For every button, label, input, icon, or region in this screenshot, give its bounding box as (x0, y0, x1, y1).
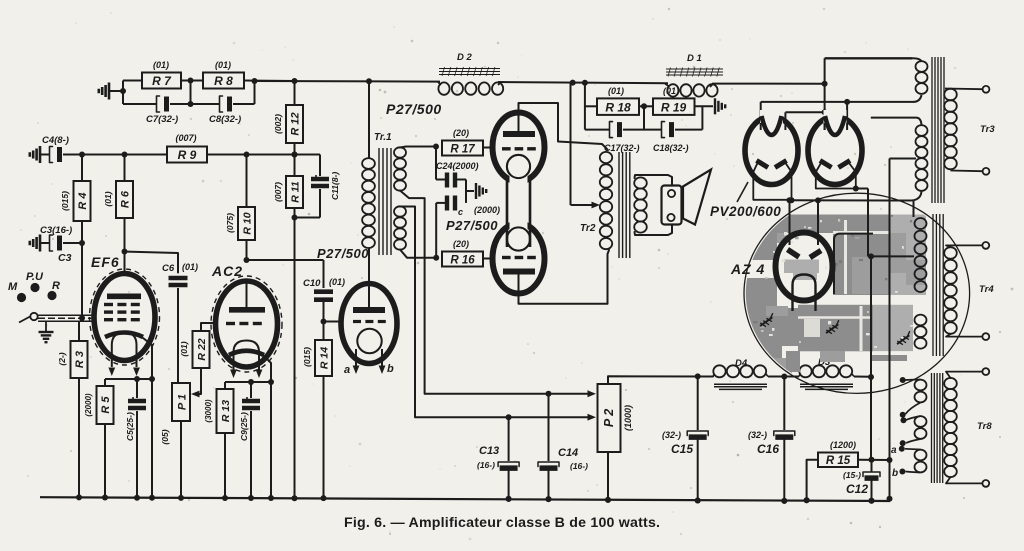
speaker horn (683, 170, 711, 225)
tube EF6 envelope (94, 274, 155, 361)
resistor R13 (217, 389, 234, 433)
Tr8 left winding section 2 (915, 416, 927, 427)
capacitor C18 (662, 122, 665, 138)
wire C9 top (250, 382, 252, 398)
resistor R9 (167, 147, 207, 163)
svg-text:EF6: EF6 (91, 254, 120, 270)
grey overlay band above AZ4 (770, 215, 889, 234)
wire Tr8 secondary bottom (946, 477, 982, 483)
Tr8 core (931, 373, 933, 483)
envelope neck (506, 177, 508, 248)
wire C18 to R19 right (675, 129, 702, 131)
grey overlay lower right block (873, 305, 913, 351)
wire P1 bottom (180, 421, 182, 498)
wire Tr2 secondary bottom to speaker (635, 225, 673, 236)
wire HV vertical (over grey) (870, 256, 872, 377)
Tr2 core (618, 152, 620, 258)
svg-text:R 6: R 6 (120, 190, 132, 208)
capacitor C6 (169, 276, 188, 281)
wire C24 to ground node (457, 179, 466, 181)
wire top supply bus (255, 80, 441, 83)
resistor R8 (203, 73, 244, 89)
svg-text:(1200): (1200) (830, 440, 856, 450)
speaker frame (662, 186, 682, 225)
svg-text:C13: C13 (479, 445, 499, 457)
AZ4 filament arch (793, 275, 816, 312)
wire R13 top (224, 382, 226, 389)
wire C16 bottom (783, 438, 785, 501)
wire R6 to EF6 anode (124, 218, 126, 275)
wire Tr1 sec upper bottom to P2 (400, 191, 425, 394)
wire C11 bottom (319, 189, 321, 218)
HV heater rail (792, 199, 912, 201)
wire (712, 83, 825, 85)
wire R10 top (246, 155, 248, 208)
Tr4 secondary winding (944, 247, 957, 259)
svg-text:a: a (344, 364, 350, 376)
wire R6 top (124, 155, 126, 182)
svg-text:(075): (075) (225, 213, 235, 233)
resistor R6 (116, 181, 133, 218)
selection circle (744, 193, 970, 393)
wire AZ4 anode left (789, 200, 791, 245)
resistor R14 (315, 340, 332, 376)
svg-text:Fig. 6. — Amplificateur classe: Fig. 6. — Amplificateur classe B de 100 … (344, 515, 660, 531)
resistor R18 (597, 98, 639, 115)
svg-text:C16: C16 (757, 442, 779, 456)
svg-text:R 15: R 15 (826, 455, 851, 467)
wire Tr1 sec top to R17 (400, 147, 436, 148)
wire (170, 103, 220, 105)
Tr3 core (931, 57, 933, 203)
EF6 heater arrows (111, 359, 113, 367)
Tr2 primary winding (600, 152, 612, 163)
Tr3 secondary winding (944, 89, 957, 101)
wire R3 bottom (78, 378, 80, 497)
wire D3 to HV vertical (854, 376, 871, 378)
wire into Tr3 upper top (912, 58, 922, 62)
wire Tr1 primary to driver anode (368, 248, 370, 284)
lower filament circle (507, 227, 530, 250)
resistor R17 (442, 141, 483, 156)
capacitor C16 (774, 431, 795, 436)
wire R14 bottom (323, 376, 325, 498)
tube PV1 envelope (745, 117, 798, 185)
svg-text:(015): (015) (60, 191, 70, 211)
shielded grid cable (38, 314, 96, 316)
svg-text:(01): (01) (215, 60, 231, 70)
wire grid to driver tube (324, 321, 343, 323)
grey overlay left strip (758, 228, 777, 248)
PV2 electrodes (820, 161, 832, 168)
speaker hole lower (667, 214, 674, 221)
grey overlay medium patch in block (852, 257, 888, 294)
svg-text:C14: C14 (558, 447, 578, 459)
wire bend near AZ4 (834, 234, 873, 294)
wire R18-R19 node (639, 105, 653, 107)
wire C15 bottom (697, 438, 699, 501)
upper grid dashes (502, 147, 511, 150)
svg-text:R: R (52, 280, 60, 292)
wire C14 top (548, 394, 550, 461)
vertical B+ from rectifier (824, 58, 826, 130)
wire R15 right node (858, 459, 890, 461)
svg-text:(2000): (2000) (474, 205, 500, 215)
potentiometer P1 (172, 383, 190, 421)
wire R16 to tube grid (483, 258, 493, 260)
capacitor C14 (538, 462, 559, 467)
svg-text:(01): (01) (103, 191, 113, 206)
wire bus to R18 (584, 83, 586, 130)
grey overlay block right of AZ4 (833, 233, 889, 295)
driver grid dashes (353, 320, 361, 323)
EF6 filament (112, 333, 137, 360)
Tr8 secondary winding (944, 378, 957, 389)
svg-text:C17(32-): C17(32-) (604, 143, 640, 153)
capacitor C5 (128, 399, 146, 403)
wire lower bias line to P2 (415, 416, 591, 418)
svg-text:R 16: R 16 (450, 255, 475, 267)
wire C9 bottom (250, 411, 252, 498)
node M (17, 293, 26, 302)
PV1 filament leads (753, 163, 757, 200)
capacitor C7 (157, 96, 160, 112)
wire (244, 80, 295, 83)
white knockout vertical in grey (844, 220, 847, 294)
svg-text:C4(8-): C4(8-) (42, 135, 69, 146)
wire to C6 (125, 252, 179, 273)
white knockout in lower block (860, 306, 863, 351)
svg-text:R 13: R 13 (220, 400, 232, 422)
svg-text:(01): (01) (608, 86, 624, 96)
wire R17 node down to C24 (435, 147, 437, 180)
Tr4 core (932, 214, 934, 356)
wire D4 to D3 (768, 376, 799, 378)
Tr8 tap 2 (906, 403, 921, 415)
resistor R11 (286, 176, 303, 208)
AC2 heater arrows (230, 370, 237, 379)
node P.U (30, 283, 39, 292)
PV1 electrodes (757, 161, 769, 168)
svg-text:R 14: R 14 (319, 347, 331, 369)
svg-text:(32-): (32-) (748, 430, 767, 440)
resistor R22 (193, 331, 210, 368)
anode lead PV2 right (846, 102, 848, 130)
grey overlay inside AZ4 (784, 260, 819, 274)
svg-text:R 18: R 18 (605, 101, 631, 115)
svg-text:(01): (01) (182, 262, 198, 272)
choke D2 (438, 82, 449, 94)
wire C15 top (697, 376, 699, 430)
wire lower branch C7 (123, 103, 157, 105)
svg-text:(20): (20) (453, 239, 469, 249)
svg-text:(15-): (15-) (843, 470, 861, 480)
svg-text:(2-): (2-) (57, 352, 67, 365)
Tr3 upper primary winding (916, 61, 928, 72)
wire Tr3 secondary top to terminal (945, 88, 982, 91)
wire C16 top (783, 377, 785, 431)
core of D2 (439, 68, 500, 70)
wire R5 top (104, 379, 106, 386)
svg-text:R 19: R 19 (661, 101, 687, 115)
Tr8 tap 1 (905, 379, 921, 382)
svg-text:Tr8: Tr8 (977, 421, 992, 432)
filament circles rejoin (507, 155, 530, 178)
svg-text:R 12: R 12 (290, 112, 302, 135)
leader line PV label (737, 182, 748, 202)
Tr4 lower winding (915, 315, 927, 326)
anode lead PV2 left (824, 112, 826, 130)
wire Tr1 sec lower top to P2 (400, 207, 415, 418)
wire R5 bottom (104, 424, 106, 498)
anode lead PV1 right (784, 112, 786, 130)
capacitor C9 (242, 399, 260, 403)
wire R19 to ground (695, 105, 714, 107)
svg-text:D4: D4 (735, 358, 748, 369)
wire C17 to node (623, 129, 644, 131)
capacitor C12 (863, 472, 880, 477)
wire cathode to bus (151, 379, 153, 498)
svg-text:C18(32-): C18(32-) (653, 143, 689, 153)
wire heater to Tr4 (868, 255, 914, 257)
svg-text:(015): (015) (302, 347, 312, 367)
core of D4 (714, 383, 767, 385)
wire R4 top (81, 155, 83, 182)
svg-text:C8(32-): C8(32-) (209, 114, 241, 125)
wire Tr4 secondary top (946, 245, 982, 247)
wire R22 to P1 wiper (197, 368, 201, 394)
svg-text:(01): (01) (663, 86, 679, 96)
wire c to R16 node (436, 202, 445, 204)
selection mark 1 (758, 313, 776, 328)
svg-text:P.U: P.U (26, 271, 44, 283)
svg-text:(16-): (16-) (570, 461, 588, 471)
envelope neck opening (510, 174, 528, 185)
wire R11 bottom (294, 208, 296, 218)
wire Tr3 lower bottom (911, 191, 922, 201)
capacitor C24 (445, 173, 449, 188)
wire C10 bottom (323, 300, 325, 322)
envelope neck sides (506, 177, 508, 248)
Tr8 left winding section 3 (915, 450, 927, 461)
wire C5 top (136, 379, 138, 398)
svg-text:PV200/600: PV200/600 (710, 204, 781, 219)
svg-text:(007): (007) (273, 182, 283, 202)
ground after R19 (714, 98, 716, 114)
wire C12 bottom (871, 479, 873, 501)
svg-text:R 9: R 9 (178, 148, 197, 162)
Tr8 left winding section 1 (915, 380, 927, 391)
AC2 anode bar (229, 307, 265, 313)
capacitor C4 (40, 154, 50, 156)
svg-text:Tr3: Tr3 (980, 124, 995, 135)
wire anode rail to C10 (247, 259, 324, 261)
wire Tr2 secondary top to speaker (635, 175, 673, 186)
capacitor C8 (220, 96, 223, 112)
svg-text:C3: C3 (58, 252, 72, 264)
EF6 cathode lead (143, 338, 152, 379)
svg-text:R 22: R 22 (196, 338, 208, 360)
wire C18 branch (644, 129, 662, 131)
svg-text:(32-): (32-) (662, 430, 681, 440)
wire C6 to P1 (177, 288, 179, 383)
wire R10 bottom (246, 240, 248, 260)
wire Tr3 tap vertical (over grey) (889, 159, 891, 401)
svg-text:R 3: R 3 (74, 351, 86, 368)
wire C5 bottom (136, 411, 138, 498)
capacitor C11 (311, 177, 329, 181)
wire upper bias line to P2 (425, 393, 591, 395)
grey overlay dark bar bottom (870, 355, 907, 361)
driver anode bar (353, 307, 385, 313)
AC2 cathode lead (264, 356, 271, 382)
wire C13 bottom (508, 469, 510, 499)
wire (123, 80, 142, 82)
wire B+ to Tr1 primary (368, 81, 370, 158)
wire Tr1 sec lower bottom to R16 (400, 250, 436, 258)
tube AC2 dashed halo (211, 276, 282, 372)
svg-text:D 2: D 2 (457, 52, 473, 63)
svg-text:(01): (01) (329, 277, 345, 287)
resistor R16 (442, 252, 483, 267)
wire P2 top to D4 (608, 376, 713, 384)
svg-text:R 5: R 5 (100, 396, 112, 414)
svg-text:(16-): (16-) (477, 460, 495, 470)
svg-text:M: M (8, 281, 18, 293)
wire R22 top to AC2 grid (201, 323, 217, 331)
wire AC2 cathode to bus (270, 382, 272, 498)
node junction left of R7/C7 (122, 81, 124, 105)
wire upper anode to Tr2 primary top (519, 103, 608, 149)
core of D1 (666, 68, 723, 70)
svg-text:c: c (458, 207, 463, 217)
wire PV2 heater down (over grey) (867, 189, 869, 257)
wire C17 branch (585, 129, 610, 131)
wire Tr3 upper bottom (913, 95, 922, 102)
svg-text:C10: C10 (303, 278, 321, 289)
AC2 grid dashes (226, 322, 235, 325)
svg-text:C15: C15 (671, 442, 693, 456)
wire C13 top (508, 417, 510, 461)
svg-text:(01): (01) (153, 60, 169, 70)
core of D3 (800, 383, 853, 385)
wire C14 bottom (548, 469, 550, 500)
wire (498, 82, 668, 83)
upper anode bar (503, 131, 535, 137)
tube P27/500 upper envelope (493, 113, 545, 182)
EF6 anode bar (107, 293, 141, 299)
svg-text:(1000): (1000) (623, 405, 633, 431)
driver heater leads a b (355, 349, 357, 366)
upper filament circle (507, 155, 530, 178)
svg-text:(3000): (3000) (204, 399, 213, 422)
Tr2 secondary winding (634, 177, 647, 188)
resistor R5 (97, 386, 114, 424)
lower grid dashes (502, 256, 511, 259)
potentiometer P2 (598, 384, 621, 452)
wire Tr3 winding tap (890, 158, 917, 160)
wire lower anode to Tr2 primary bottom (519, 250, 610, 304)
wire AZ4 anode right (817, 200, 819, 245)
white knockout horizontal in grey (833, 231, 889, 234)
white patch hole in lower block (804, 319, 820, 337)
wire R12 bottom (294, 143, 296, 155)
ground below switch (45, 321, 47, 331)
wire (233, 103, 255, 105)
resistor R4 (74, 181, 91, 221)
Tr1 core (378, 148, 380, 255)
choke D1 (667, 84, 678, 96)
Tr1 secondary lower (394, 206, 406, 216)
resistor R3 (71, 341, 88, 378)
capacitor C3 (40, 242, 50, 244)
wire C3 to grid line (63, 242, 82, 244)
driver filament circle (357, 329, 381, 353)
grey overlay right columns (889, 215, 926, 296)
wire second rail (63, 154, 167, 156)
svg-text:R 7: R 7 (152, 74, 172, 88)
svg-text:R 10: R 10 (242, 212, 254, 234)
grey overlay speckle edge (777, 233, 787, 243)
svg-text:C24(2000): C24(2000) (436, 161, 479, 171)
svg-text:P27/500: P27/500 (317, 246, 369, 261)
resistor R10 (238, 207, 255, 240)
wire down to ground bus (294, 218, 296, 499)
svg-text:(002): (002) (273, 114, 283, 134)
wire Tr3 lower top (916, 118, 922, 125)
ground at C3 (39, 235, 42, 252)
svg-text:R 4: R 4 (77, 192, 89, 209)
svg-text:D 1: D 1 (687, 53, 702, 64)
PV2 filament leads (816, 163, 821, 189)
svg-text:P27/500: P27/500 (446, 218, 498, 233)
svg-text:C6: C6 (162, 263, 175, 274)
terminal Tr3 top (983, 86, 990, 93)
svg-text:R 8: R 8 (214, 74, 233, 88)
Tr1 secondary upper (394, 147, 406, 157)
wire R4 bottom (81, 221, 83, 317)
resistor R19 (653, 98, 695, 115)
wire C12 top (871, 460, 873, 472)
svg-text:P 2: P 2 (602, 409, 616, 427)
ground of bias network (475, 183, 477, 199)
svg-text:C11(8-): C11(8-) (330, 172, 340, 200)
svg-text:b: b (892, 468, 898, 479)
tube P27/500 driver envelope (341, 284, 397, 364)
ground bus wire (40, 497, 890, 501)
tube AC2 envelope (216, 281, 278, 367)
wire top line to Tr3 (825, 57, 912, 59)
svg-text:(20): (20) (453, 128, 469, 138)
capacitor C17 (610, 122, 613, 138)
wire R13 bottom (224, 433, 226, 498)
cathode rail AC2 (225, 381, 271, 383)
wire PV2 filament to HV line (856, 188, 868, 190)
svg-text:Tr2: Tr2 (580, 223, 596, 234)
svg-text:(2000): (2000) (84, 393, 93, 416)
svg-text:a: a (891, 445, 897, 456)
wire Tr8 secondary top (946, 372, 982, 378)
svg-text:C5(25-): C5(25-) (125, 412, 135, 441)
grey overlay right medium patch (889, 233, 906, 273)
anode lead PV1 left (760, 102, 762, 130)
choke D4 (713, 365, 725, 377)
wire R3 top (78, 321, 80, 341)
svg-text:C12: C12 (846, 482, 868, 496)
Tr8 tap a (905, 448, 921, 451)
grey overlay pixel noise (808, 227, 812, 229)
anode rail lower (785, 111, 824, 113)
